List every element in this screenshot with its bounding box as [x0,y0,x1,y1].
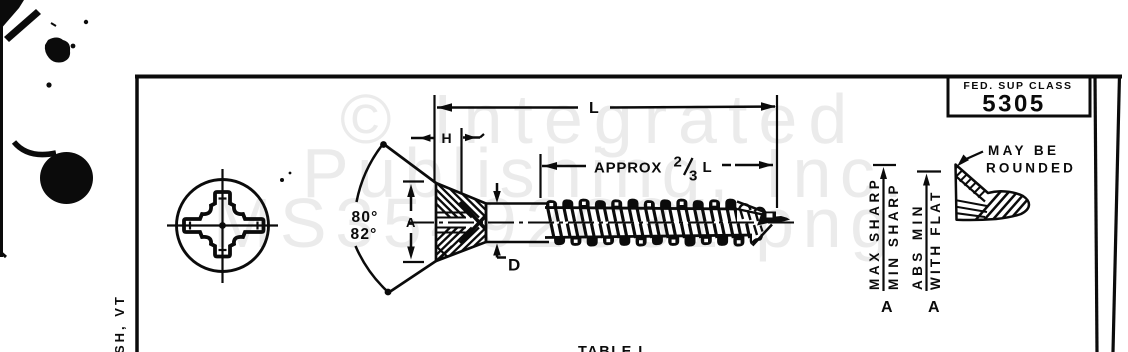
frame top border [135,75,1122,79]
svg-text:WITH FLAT: WITH FLAT [928,189,943,290]
screw tip [757,212,790,226]
svg-text:MAX SHARP: MAX SHARP [867,177,882,290]
max-min sharp arrowhead [880,167,887,179]
scan left-edge line [0,0,3,257]
scan arc mark [14,142,56,155]
H dim right extension line [460,128,462,193]
D dim down arrowhead [493,191,501,203]
abs-min leader line [925,184,927,291]
scan diagonal streak [4,9,41,42]
phillips recess outline [184,192,264,257]
FED SUP CLASS box [948,77,1090,116]
approx dim line right [735,164,773,167]
H dim left arrowhead [420,134,431,142]
approx dim left arrowhead [543,162,557,170]
svg-text:ABS MIN: ABS MIN [910,202,925,290]
head-shank junction line [485,204,488,243]
L dim left arrowhead [437,103,452,112]
svg-text:3: 3 [689,168,697,185]
D dim lower shaft [496,255,499,258]
D dim upper shaft [496,183,499,192]
angle dim upper diagonal [383,144,436,184]
A dim upper shaft [410,195,413,211]
scan speck [51,23,56,26]
may-be-rounded leader arrowhead [957,155,969,167]
svg-text:A: A [881,299,893,316]
frame left border [135,75,139,352]
screw head side profile [436,183,486,261]
A dim down arrowhead [407,247,415,260]
L dim right extension line [776,95,778,208]
L dim left extension line [433,95,435,183]
recess left slot inner line [189,222,191,230]
side view centerline [408,222,794,224]
svg-text:80°: 80° [352,209,379,226]
A dim bottom tick [403,261,424,263]
vertical centerline [221,169,223,283]
recess center dot [219,222,226,229]
recess top slot inner line [219,197,227,199]
svg-text:A: A [406,215,416,230]
abs-min arrowhead [923,174,930,186]
angle arc lower segment [356,246,389,292]
point detail hatching [951,167,1054,225]
fraction slash [684,158,693,175]
approx dim line right dash [722,164,731,167]
max-min sharp leader line [882,178,884,291]
may-be-rounded leader line [964,152,983,161]
A dim lower shaft [410,233,413,249]
approx dim left extension line [539,154,541,198]
A dim top tick [403,180,424,182]
svg-text:MIN SHARP: MIN SHARP [886,182,901,290]
svg-text:2: 2 [674,154,682,171]
svg-text:MS35492C31.png: MS35492C31.png [213,184,898,262]
svg-text:SH, VT: SH, VT [112,294,127,352]
D dim leader foot [497,256,506,259]
recess right slot inner line [256,222,258,230]
svg-text:ROUNDED: ROUNDED [986,161,1076,176]
svg-text:H: H [442,130,452,146]
shank top line [486,202,549,205]
shank bottom line [486,241,549,244]
svg-text:MAY BE: MAY BE [988,143,1059,158]
A dim up arrowhead [407,184,415,197]
angle dim lower diagonal [388,261,436,293]
svg-text:APPROX: APPROX [594,160,662,177]
head hatching [407,175,529,269]
recess bottom slot inner line [219,249,227,251]
L dim right arrowhead [761,102,776,111]
svg-text:82°: 82° [351,226,378,243]
svg-text:A: A [928,299,940,316]
point detail outline [956,165,1030,220]
svg-text:TABLE I: TABLE I [578,344,644,352]
angle arc upper segment [357,144,384,202]
screw head front view circle [177,180,269,272]
H dim left arrow tail [411,137,434,139]
horizontal centerline [167,224,278,226]
D dim up arrowhead [493,244,501,256]
approx dim line left [542,165,586,168]
svg-text:L: L [703,159,712,176]
svg-text:5305: 5305 [982,91,1045,118]
svg-text:L: L [589,100,599,117]
abs min tick [917,170,941,172]
L dim line right segment [610,107,775,108]
max sharp tick [873,164,896,166]
scan ink blob [45,38,70,63]
frame inner right border [1095,75,1097,352]
H dim right arrow tail [463,136,480,138]
H dim right arrowhead [465,134,476,141]
approx dim right arrowhead [759,161,773,169]
frame outer right border [1113,75,1120,352]
scan blotch top-left corner wedge [0,0,24,30]
L dim line left segment [437,106,578,109]
scan black dot blob [40,152,93,204]
svg-text:D: D [508,256,520,275]
